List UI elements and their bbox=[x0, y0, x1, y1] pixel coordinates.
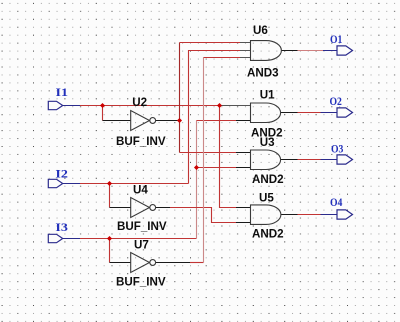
wire U2out to U3 upper bbox=[180, 152, 237, 154]
wire U-O1 output stub bbox=[281, 50, 297, 52]
junction j4 bbox=[107, 236, 112, 241]
and gate U6 (AND3) bbox=[251, 41, 282, 61]
inverter U4 (BUF_INV) bbox=[131, 198, 156, 218]
svg-text:U7: U7 bbox=[134, 239, 149, 252]
wire I2 down to U4 bbox=[109, 184, 111, 208]
and gate U1 (AND2) bbox=[251, 103, 281, 123]
junction j3 bbox=[107, 181, 112, 186]
svg-text:U5: U5 bbox=[259, 192, 274, 205]
wire U2out to U6 input A bbox=[180, 42, 241, 44]
svg-text:O3: O3 bbox=[331, 143, 344, 156]
wire U6 input B stub bbox=[240, 50, 251, 52]
wire O1 pin lead bbox=[323, 50, 337, 52]
output pin O1 bbox=[337, 46, 353, 55]
svg-text:O1: O1 bbox=[330, 33, 342, 46]
wire O2 net bbox=[298, 112, 321, 114]
wire U-O4 output stub bbox=[281, 214, 298, 216]
wire I1 down to U2 bbox=[102, 106, 104, 121]
svg-text:BUF_INV: BUF_INV bbox=[116, 276, 166, 289]
wire U7 bubble out bbox=[156, 262, 190, 264]
input pin I3 bbox=[48, 234, 62, 242]
wire U3 upper input stub bbox=[236, 152, 251, 154]
wire O4 net bbox=[298, 214, 321, 216]
svg-text:I3: I3 bbox=[55, 220, 68, 234]
svg-text:O2: O2 bbox=[330, 95, 342, 108]
wire I2 up to U6 input B bbox=[189, 51, 241, 184]
svg-text:I2: I2 bbox=[55, 166, 67, 180]
junction j5 bbox=[177, 118, 182, 123]
wire U7 input stub bbox=[110, 262, 132, 264]
wire I3 horizontal bbox=[80, 238, 197, 240]
wire O1 net bbox=[298, 50, 324, 52]
wire U4 input stub bbox=[110, 207, 132, 209]
wire I3 to U1 lower bbox=[197, 120, 237, 122]
inverter U2 (BUF_INV) bbox=[131, 111, 156, 131]
wire I1 down to U5 upper bbox=[220, 106, 237, 208]
wire I2 pin lead bbox=[63, 183, 80, 185]
wire U7out to vertical bbox=[190, 262, 204, 264]
wire I3 branch to U3 lower bbox=[197, 167, 237, 169]
wire U7out vertical bbox=[203, 58, 205, 263]
wire U4 bubble out bbox=[156, 207, 170, 209]
wire I1 horizontal bbox=[80, 105, 220, 107]
wire U2out vertical bbox=[179, 43, 181, 153]
and gate U3 (AND2) bbox=[251, 150, 281, 170]
wire U2 bubble to junction bbox=[156, 120, 180, 122]
wire U7out to U6 input C bbox=[204, 57, 241, 59]
junction j2 bbox=[217, 103, 222, 108]
wire O4 pin lead bbox=[321, 214, 338, 216]
wire U1 lower input stub bbox=[236, 120, 251, 122]
wire O3 pin lead bbox=[321, 159, 338, 161]
svg-text:AND2: AND2 bbox=[252, 173, 284, 186]
wire U-O2 output stub bbox=[281, 112, 298, 114]
wire I1 to U1 upper stub bbox=[220, 105, 252, 107]
svg-text:U6: U6 bbox=[253, 24, 268, 37]
wire I3 down to U7 bbox=[109, 239, 111, 263]
svg-text:AND2: AND2 bbox=[252, 228, 284, 241]
wire U6 input C stub bbox=[240, 57, 251, 59]
wire I3 pin lead bbox=[63, 238, 80, 240]
svg-text:U4: U4 bbox=[133, 183, 148, 196]
wire O3 net bbox=[298, 159, 321, 161]
output pin O2 bbox=[337, 108, 353, 117]
svg-text:BUF_INV: BUF_INV bbox=[116, 135, 166, 148]
and gate U5 (AND2) bbox=[251, 205, 281, 225]
junction j1 bbox=[100, 103, 105, 108]
wire U-O3 output stub bbox=[281, 159, 298, 161]
svg-text:U2: U2 bbox=[132, 96, 147, 109]
svg-text:U3: U3 bbox=[260, 136, 275, 149]
output pin O3 bbox=[337, 155, 353, 164]
svg-text:AND3: AND3 bbox=[247, 67, 279, 80]
svg-text:U1: U1 bbox=[260, 88, 275, 101]
wire I2 horizontal bbox=[80, 183, 189, 185]
input pin I2 bbox=[48, 179, 62, 187]
wire I1 pin lead bbox=[63, 105, 80, 107]
output pin O4 bbox=[337, 210, 353, 219]
input pin I1 bbox=[48, 101, 62, 109]
wire O2 pin lead bbox=[321, 112, 338, 114]
wire U3 lower input stub bbox=[236, 167, 251, 169]
wire I3 vertical up bbox=[196, 121, 198, 239]
wire U4out jog bbox=[170, 208, 236, 223]
wire U6 input A stub bbox=[240, 42, 251, 44]
svg-text:I1: I1 bbox=[56, 85, 68, 99]
svg-text:O4: O4 bbox=[330, 196, 343, 209]
svg-text:BUF_INV: BUF_INV bbox=[117, 220, 167, 233]
inverter U7 (BUF_INV) bbox=[131, 253, 156, 273]
junction j6 bbox=[194, 165, 199, 170]
wire U5 upper input stub bbox=[236, 207, 251, 209]
wire U5 lower input stub bbox=[236, 222, 251, 224]
wire U2 input stub bbox=[103, 120, 132, 122]
